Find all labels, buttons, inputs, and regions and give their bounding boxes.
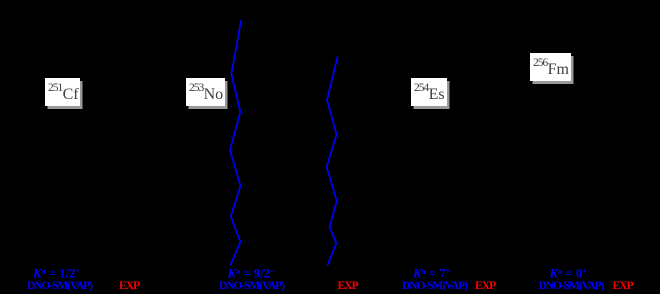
node: experiment column label group 1: [119, 280, 139, 292]
node: experiment column label group 2: [338, 280, 358, 292]
node: K label group 4: [550, 266, 587, 282]
node: K label group 3: [413, 266, 450, 282]
node: nucleus label box 251Cf: [45, 78, 80, 107]
node: K label group 1: [33, 266, 80, 282]
node: experiment column label group 4: [613, 280, 633, 292]
node: nucleus label box 256Fm: [530, 53, 571, 82]
node: nucleus label box 253No: [186, 78, 225, 107]
node: nucleus label box 254Es: [411, 78, 447, 107]
wire: zigzag polyline 1: [230, 21, 241, 265]
node: K label group 2: [228, 266, 275, 282]
node: theory column label group 1: [27, 280, 92, 292]
node: theory column label group 4: [539, 280, 604, 292]
node: theory column label group 2: [219, 280, 284, 292]
node: experiment column label group 3: [475, 280, 495, 292]
node: theory column label group 3: [402, 280, 467, 292]
wire: zigzag polyline 2: [327, 57, 338, 265]
